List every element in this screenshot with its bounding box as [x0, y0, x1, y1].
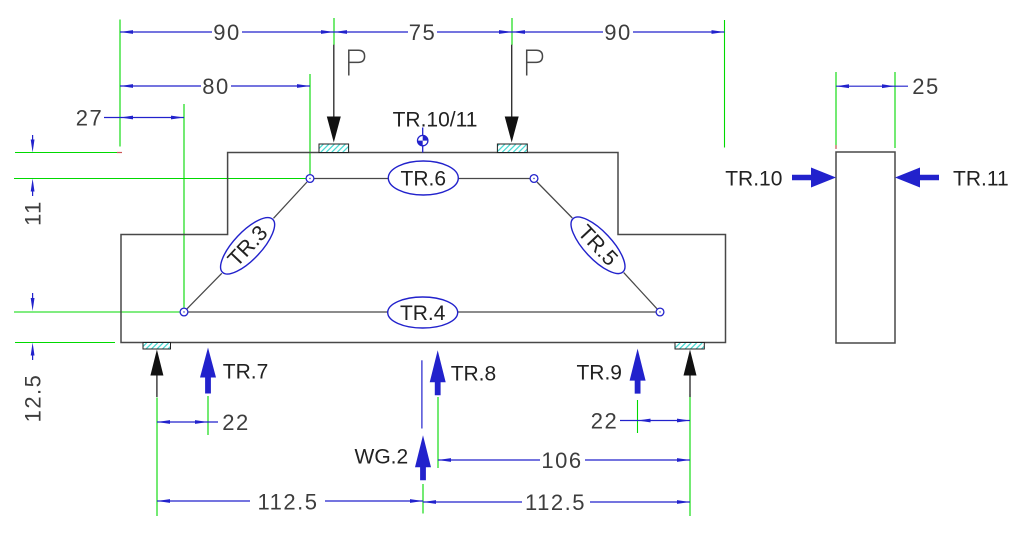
svg-text:TR.11: TR.11 [953, 168, 1009, 191]
svg-text:TR.4: TR.4 [400, 302, 446, 325]
svg-text:106: 106 [541, 448, 582, 473]
svg-text:75: 75 [409, 20, 436, 45]
svg-text:22: 22 [591, 409, 618, 434]
svg-text:TR.9: TR.9 [576, 362, 622, 385]
svg-text:11: 11 [20, 200, 45, 226]
svg-text:TR.8: TR.8 [451, 363, 497, 386]
svg-text:112.5: 112.5 [258, 490, 319, 515]
svg-text:27: 27 [76, 106, 103, 131]
svg-text:22: 22 [222, 410, 249, 435]
svg-text:TR.10/11: TR.10/11 [393, 109, 478, 132]
svg-text:12.5: 12.5 [20, 374, 45, 423]
svg-text:WG.2: WG.2 [355, 446, 409, 469]
svg-text:TR.6: TR.6 [401, 168, 447, 191]
svg-text:80: 80 [202, 74, 229, 99]
svg-text:TR.7: TR.7 [223, 361, 269, 384]
svg-text:90: 90 [213, 20, 240, 45]
svg-text:112.5: 112.5 [525, 490, 586, 515]
svg-text:90: 90 [604, 20, 631, 45]
svg-text:25: 25 [912, 74, 939, 99]
svg-text:TR.10: TR.10 [725, 168, 782, 191]
